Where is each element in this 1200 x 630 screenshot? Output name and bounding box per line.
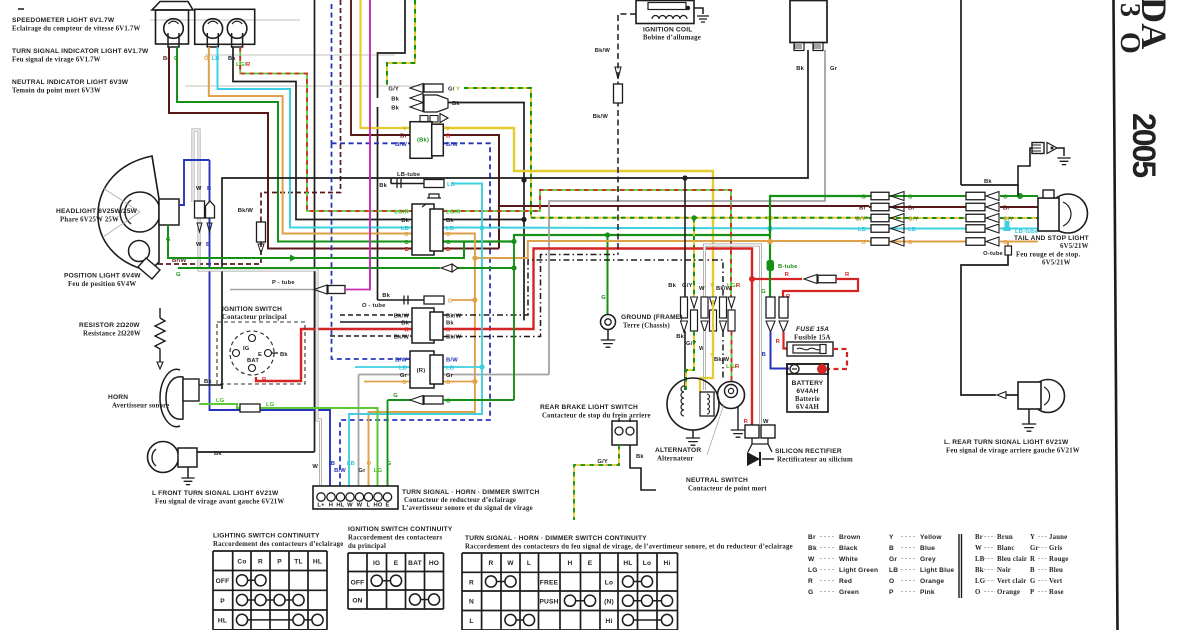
svg-text:Co: Co — [237, 559, 246, 566]
svg-text:O: O — [446, 232, 451, 238]
svg-text:IG: IG — [243, 346, 250, 352]
svg-text:ON: ON — [352, 598, 362, 605]
svg-text:L+: L+ — [317, 503, 325, 509]
svg-text:G/Y: G/Y — [686, 341, 697, 347]
svg-text:Contacteur de stop du frein ar: Contacteur de stop du frein arriere — [542, 413, 651, 420]
svg-text:BATTERY: BATTERY — [792, 380, 824, 387]
svg-text:BAT: BAT — [408, 560, 422, 567]
svg-text:E: E — [385, 503, 389, 509]
svg-text:LB: LB — [446, 366, 454, 372]
svg-text:Bk: Bk — [668, 283, 676, 289]
svg-text:Blue: Blue — [920, 545, 935, 552]
svg-text:B/W: B/W — [446, 358, 458, 364]
svg-text:Bk/W: Bk/W — [446, 335, 462, 341]
svg-text:du principal: du principal — [348, 543, 386, 550]
svg-text:Bk: Bk — [808, 545, 817, 552]
svg-text:E: E — [394, 560, 399, 567]
svg-text:LIGHTING SWITCH CONTINUITY: LIGHTING SWITCH CONTINUITY — [213, 533, 320, 540]
svg-text:Bk/W: Bk/W — [446, 314, 462, 320]
svg-text:B: B — [206, 242, 210, 248]
svg-text:HEADLIGHT 6V25W/25W: HEADLIGHT 6V25W/25W — [56, 208, 138, 215]
svg-text:Alternateur: Alternateur — [657, 456, 694, 463]
svg-text:W: W — [699, 286, 705, 292]
svg-text:Rectificateur au silicium: Rectificateur au silicium — [777, 457, 853, 464]
svg-text:TAIL AND STOP LIGHT: TAIL AND STOP LIGHT — [1014, 235, 1089, 242]
svg-text:W: W — [312, 464, 318, 470]
svg-text:HORN: HORN — [108, 394, 128, 401]
svg-text:G: G — [387, 461, 392, 467]
svg-text:Gr: Gr — [830, 66, 838, 72]
svg-text:G: G — [404, 240, 409, 246]
svg-text:B: B — [331, 461, 335, 467]
svg-text:NEUTRAL SWITCH: NEUTRAL SWITCH — [686, 477, 748, 484]
svg-text:Bk: Bk — [401, 218, 409, 224]
svg-text:Jaune: Jaune — [1049, 534, 1067, 541]
svg-text:R: R — [808, 578, 813, 585]
svg-text:Contacteur de point mort: Contacteur de point mort — [688, 486, 767, 493]
svg-text:Vert clair: Vert clair — [997, 578, 1027, 585]
svg-text:6V4AH: 6V4AH — [796, 388, 818, 395]
svg-text:LB: LB — [858, 227, 866, 233]
svg-text:G: G — [601, 295, 606, 301]
svg-text:(Bk): (Bk) — [417, 138, 429, 144]
svg-text:G: G — [1030, 578, 1036, 585]
svg-text:LG: LG — [975, 578, 986, 585]
svg-text:Raccordement des contacteurs d: Raccordement des contacteurs du feu sign… — [465, 544, 793, 551]
svg-text:W: W — [347, 503, 353, 509]
svg-text:B: B — [446, 247, 450, 253]
svg-text:LB: LB — [975, 556, 985, 563]
svg-text:IGNITION SWITCH CONTINUITY: IGNITION SWITCH CONTINUITY — [348, 526, 453, 533]
svg-text:Grey: Grey — [920, 556, 936, 563]
svg-text:Br: Br — [400, 134, 407, 140]
svg-text:Bk: Bk — [214, 451, 222, 457]
svg-text:Pink: Pink — [920, 589, 935, 596]
svg-text:TL: TL — [294, 559, 302, 566]
svg-text:Y: Y — [1030, 534, 1035, 541]
svg-text:OFF: OFF — [216, 578, 230, 585]
svg-text:Gr: Gr — [400, 373, 408, 379]
svg-text:Orange: Orange — [920, 578, 944, 585]
svg-text:O: O — [404, 232, 409, 238]
svg-text:Black: Black — [839, 545, 858, 552]
svg-text:Hi: Hi — [606, 618, 613, 625]
svg-text:Resistance 2Ω20W: Resistance 2Ω20W — [83, 331, 141, 338]
svg-text:Y: Y — [403, 127, 407, 133]
svg-text:L’avertisseur sonore et du si: L’avertisseur sonore et du signal de vir… — [402, 505, 533, 512]
svg-text:IGNITION COIL: IGNITION COIL — [643, 27, 693, 34]
svg-text:BAT: BAT — [247, 358, 259, 364]
svg-text:W: W — [357, 503, 363, 509]
svg-text:B/W: B/W — [395, 358, 407, 364]
svg-text:Bk: Bk — [446, 218, 454, 224]
svg-text:(R): (R) — [417, 368, 426, 374]
svg-text:B: B — [446, 134, 450, 140]
svg-text:Y: Y — [710, 283, 714, 289]
svg-text:OFF: OFF — [351, 580, 365, 587]
svg-text:Feu rouge et de stop.: Feu rouge et de stop. — [1016, 252, 1080, 259]
svg-text:Bk: Bk — [382, 293, 390, 299]
svg-text:Eclairage du compteur de vites: Eclairage du compteur de vitesse 6V1.7W — [12, 26, 141, 33]
svg-text:O: O — [367, 461, 372, 467]
svg-text:O: O — [908, 240, 913, 246]
svg-text:G: G — [808, 589, 813, 596]
svg-text:B: B — [762, 352, 766, 358]
svg-text:B: B — [405, 247, 409, 253]
svg-text:Br: Br — [975, 534, 983, 541]
svg-text:Lo: Lo — [605, 580, 613, 587]
svg-text:3: 3 — [1114, 3, 1145, 17]
svg-text:Br: Br — [908, 206, 915, 212]
svg-text:G: G — [176, 272, 181, 278]
svg-text:R: R — [1030, 556, 1035, 563]
svg-text:G/Y: G/Y — [908, 217, 919, 223]
svg-text:G: G — [761, 289, 766, 295]
svg-text:LB: LB — [347, 461, 355, 467]
svg-text:W: W — [763, 419, 769, 425]
svg-text:G/: G/ — [448, 87, 455, 93]
svg-text:TURN SIGNAL INDICATOR LIGHT: TURN SIGNAL INDICATOR LIGHT 6V1.7W — [12, 48, 149, 55]
svg-text:G/Y: G/Y — [388, 87, 399, 93]
svg-text:LG/R: LG/R — [394, 210, 409, 216]
svg-text:Noir: Noir — [997, 567, 1011, 574]
svg-text:L. REAR TURN SIGNAL LIGHT: L. REAR TURN SIGNAL LIGHT 6V21W — [944, 439, 1069, 446]
svg-text:Bk: Bk — [379, 183, 387, 189]
svg-text:R: R — [262, 377, 267, 383]
svg-text:LG: LG — [374, 468, 383, 474]
svg-text:P: P — [220, 598, 225, 605]
svg-text:Raccordement des contacteurs: Raccordement des contacteurs — [348, 535, 442, 542]
svg-text:ALTERNATOR: ALTERNATOR — [655, 447, 701, 454]
svg-text:R: R — [785, 272, 790, 278]
svg-text:HO: HO — [429, 560, 439, 567]
svg-text:Gr: Gr — [1030, 545, 1039, 552]
svg-text:Br: Br — [859, 206, 866, 212]
svg-text:GROUND (FRAME): GROUND (FRAME) — [621, 314, 683, 321]
svg-text:R: R — [446, 328, 451, 334]
svg-text:Hi: Hi — [664, 560, 671, 567]
svg-text:SILICON RECTIFIER: SILICON RECTIFIER — [775, 448, 842, 455]
svg-text:Contacteur de reducteur d’ecl: Contacteur de reducteur d’eclairage — [404, 497, 516, 504]
svg-text:B: B — [889, 545, 894, 552]
svg-text:Bk: Bk — [401, 321, 409, 327]
svg-text:SPEEDOMETER LIGHT 6V1.7W: SPEEDOMETER LIGHT 6V1.7W — [12, 17, 115, 24]
svg-text:NEUTRAL INDICATOR LIGHT 6V3: NEUTRAL INDICATOR LIGHT 6V3W — [12, 79, 129, 86]
svg-text:Bobine d’allumage: Bobine d’allumage — [643, 35, 701, 42]
svg-text:W: W — [975, 545, 982, 552]
svg-text:Bk: Bk — [280, 352, 288, 358]
svg-text:H: H — [568, 560, 573, 567]
svg-text:Raccordement des contacteurs d: Raccordement des contacteurs d’eclairage — [213, 541, 344, 548]
svg-text:B: B — [1030, 567, 1035, 574]
svg-text:Gr: Gr — [889, 556, 897, 563]
svg-text:LB: LB — [889, 567, 898, 574]
svg-text:O: O — [861, 240, 866, 246]
svg-text:B/W: B/W — [446, 142, 458, 148]
svg-text:R: R — [489, 560, 494, 567]
svg-text:L: L — [367, 503, 371, 509]
svg-text:Br: Br — [808, 534, 816, 541]
svg-text:R: R — [735, 364, 740, 370]
svg-text:IGNITION SWITCH: IGNITION SWITCH — [222, 306, 282, 313]
svg-text:LB: LB — [908, 227, 916, 233]
svg-text:6V5/21W: 6V5/21W — [1042, 260, 1071, 267]
svg-text:6V4AH: 6V4AH — [796, 404, 819, 411]
svg-text:Light Green: Light Green — [839, 567, 878, 574]
svg-text:R: R — [736, 283, 741, 289]
svg-text:Contacteur principal: Contacteur principal — [222, 314, 287, 321]
svg-text:TURN SIGNAL · HORN · DIMMER: TURN SIGNAL · HORN · DIMMER SWITCH — [402, 489, 539, 496]
svg-text:O: O — [1114, 32, 1145, 54]
svg-text:O: O — [975, 589, 981, 596]
svg-text:G: G — [393, 393, 398, 399]
svg-text:REAR BRAKE LIGHT SWITCH: REAR BRAKE LIGHT SWITCH — [540, 404, 638, 411]
svg-text:Bk/W: Bk/W — [394, 335, 410, 341]
svg-text:Bk/W: Bk/W — [394, 314, 410, 320]
svg-text:G: G — [446, 240, 451, 246]
svg-text:Lo: Lo — [643, 560, 651, 567]
svg-text:Bk: Bk — [446, 321, 454, 327]
svg-text:Feu de position 6V4W: Feu de position 6V4W — [68, 281, 136, 288]
svg-text:Y: Y — [889, 534, 894, 541]
svg-text:Rouge: Rouge — [1049, 556, 1069, 563]
svg-text:G/Y: G/Y — [682, 283, 693, 289]
svg-text:W: W — [196, 186, 202, 192]
svg-text:Blanc: Blanc — [997, 545, 1015, 552]
svg-text:Brun: Brun — [997, 534, 1013, 541]
svg-text:HL: HL — [218, 618, 227, 625]
svg-text:P: P — [1030, 589, 1034, 596]
svg-text:Temoin du point mort 6V3W: Temoin du point mort 6V3W — [12, 88, 101, 95]
svg-text:Bk: Bk — [204, 379, 212, 385]
svg-text:H: H — [329, 503, 333, 509]
svg-text:Bk: Bk — [391, 97, 399, 103]
svg-text:G/Y: G/Y — [597, 459, 608, 465]
svg-text:O - tube: O - tube — [362, 303, 386, 309]
svg-text:Brown: Brown — [839, 534, 861, 541]
svg-text:Bk/W: Bk/W — [238, 208, 254, 214]
svg-text:W: W — [507, 560, 514, 567]
svg-text:Feu signal de virage 6V1.7W: Feu signal de virage 6V1.7W — [12, 57, 101, 64]
svg-text:O: O — [402, 380, 407, 386]
svg-text:R: R — [744, 419, 749, 425]
svg-text:Terre (Chassis): Terre (Chassis) — [623, 323, 670, 330]
svg-text:Vert: Vert — [1049, 578, 1063, 585]
svg-text:2005: 2005 — [1126, 113, 1162, 177]
svg-text:Gr: Gr — [358, 468, 366, 474]
svg-text:White: White — [839, 556, 858, 563]
svg-text:IG: IG — [373, 560, 380, 567]
svg-text:Phare 6V25W 25W: Phare 6V25W 25W — [60, 217, 119, 224]
svg-text:LB: LB — [399, 366, 407, 372]
svg-text:Bleu clair: Bleu clair — [997, 556, 1027, 563]
svg-text:L: L — [527, 560, 531, 567]
svg-text:G/Y: G/Y — [855, 217, 866, 223]
svg-text:Bk: Bk — [676, 334, 684, 340]
svg-text:Bk/W: Bk/W — [595, 48, 611, 54]
svg-text:Gr: Gr — [446, 373, 454, 379]
svg-text:LB-tube: LB-tube — [397, 172, 421, 178]
svg-text:Orange: Orange — [997, 589, 1020, 596]
svg-text:(N): (N) — [604, 599, 614, 606]
svg-text:P - tube: P - tube — [272, 280, 295, 286]
svg-text:FUSE 15A: FUSE 15A — [796, 326, 829, 333]
svg-text:TURN SIGNAL · HORN · DIMMER: TURN SIGNAL · HORN · DIMMER SWITCH CONTI… — [465, 535, 647, 542]
svg-text:P: P — [277, 559, 282, 566]
svg-text:L: L — [469, 618, 473, 625]
svg-text:R: R — [845, 272, 850, 278]
svg-text:LG: LG — [808, 567, 818, 574]
svg-text:B-tube: B-tube — [778, 264, 798, 270]
svg-text:Bk: Bk — [796, 66, 804, 72]
svg-text:Bk: Bk — [636, 454, 644, 460]
svg-text:HL: HL — [623, 560, 632, 567]
svg-text:R: R — [246, 62, 251, 68]
svg-text:W: W — [196, 242, 202, 248]
svg-text:HO: HO — [373, 503, 382, 509]
svg-text:PUSH: PUSH — [539, 599, 558, 606]
svg-text:B/W: B/W — [395, 142, 407, 148]
svg-text:Bleu: Bleu — [1049, 567, 1063, 574]
svg-text:O: O — [889, 578, 894, 585]
svg-text:R: R — [258, 559, 263, 566]
svg-text:Y: Y — [456, 87, 460, 93]
svg-text:B: B — [207, 186, 211, 192]
svg-text:RESISTOR 2Ω20W: RESISTOR 2Ω20W — [79, 322, 140, 329]
svg-text:G: G — [166, 237, 171, 243]
svg-text:Red: Red — [839, 578, 852, 585]
svg-text:R: R — [469, 580, 474, 587]
svg-text:Y: Y — [446, 127, 450, 133]
svg-text:LG: LG — [266, 402, 275, 408]
svg-text:Green: Green — [839, 589, 859, 596]
svg-text:L FRONT TURN SIGNAL LIGHT: L FRONT TURN SIGNAL LIGHT 6V21W — [152, 490, 279, 497]
svg-text:LG: LG — [216, 398, 225, 404]
svg-text:N: N — [469, 599, 474, 606]
svg-text:Bk/W: Bk/W — [714, 357, 730, 363]
svg-text:Feu signal de virage arriere g: Feu signal de virage arriere gauche 6V21… — [946, 448, 1080, 455]
svg-text:FREE: FREE — [540, 580, 559, 587]
svg-text:B/W: B/W — [334, 468, 346, 474]
svg-text:LG/R: LG/R — [446, 210, 461, 216]
svg-text:R: R — [776, 339, 781, 345]
svg-text:Batterie: Batterie — [795, 396, 820, 403]
svg-text:Bk: Bk — [984, 179, 992, 185]
svg-text:Bk/W: Bk/W — [593, 114, 609, 120]
svg-text:Br: Br — [1003, 206, 1010, 212]
svg-text:POSITION LIGHT 6V4W: POSITION LIGHT 6V4W — [64, 273, 141, 280]
svg-text:6V5/21W: 6V5/21W — [1060, 243, 1089, 250]
svg-text:Fusible 15A: Fusible 15A — [794, 335, 831, 342]
svg-text:O: O — [446, 380, 451, 386]
svg-text:P: P — [889, 589, 894, 596]
svg-text:Feu signal de virage avant gau: Feu signal de virage avant gauche 6V21W — [155, 499, 284, 506]
svg-text:Gris: Gris — [1049, 545, 1063, 552]
svg-text:W: W — [808, 556, 815, 563]
svg-text:R: R — [405, 328, 410, 334]
svg-text:Bk: Bk — [975, 567, 984, 574]
svg-text:O-tube: O-tube — [983, 251, 1003, 257]
svg-text:Light Blue: Light Blue — [920, 567, 954, 574]
svg-text:E: E — [588, 560, 593, 567]
svg-text:HL: HL — [336, 503, 344, 509]
svg-text:HL: HL — [313, 559, 322, 566]
svg-text:Bk: Bk — [391, 106, 399, 112]
svg-text:G: G — [908, 195, 913, 201]
svg-text:LG/: LG/ — [236, 62, 246, 68]
svg-text:Yellow: Yellow — [920, 534, 942, 541]
svg-text:Rose: Rose — [1049, 589, 1064, 596]
svg-text:G: G — [1003, 195, 1008, 201]
